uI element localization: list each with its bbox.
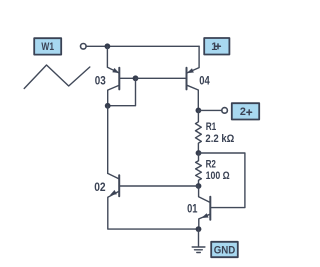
svg-text:W1: W1 [41, 41, 54, 53]
svg-text:2: 2 [240, 106, 246, 118]
node R1-R2 junction (dot) [196, 150, 202, 156]
ground symbol [192, 247, 205, 253]
transistor Q4 (PNP) [187, 46, 200, 110]
terminal label 2+ [232, 103, 259, 119]
wire base bus Q3-Q4 [136, 77, 187, 79]
svg-text:100 Ω: 100 Ω [206, 170, 230, 182]
node R2 bottom (junction dot) [196, 183, 202, 189]
svg-text:2.2 kΩ: 2.2 kΩ [205, 133, 234, 145]
transistor Q1 (NPN) [199, 186, 211, 229]
wire ground lead [198, 229, 200, 246]
svg-text:04: 04 [199, 74, 210, 88]
node top rail (junction dot) [105, 43, 111, 49]
svg-text:02: 02 [94, 180, 106, 194]
wire top rail [86, 45, 199, 47]
node ground (junction dot) [196, 226, 202, 232]
transistor Q2 (NPN) [108, 173, 199, 229]
wire to output terminal [198, 109, 221, 111]
resistor R2 [196, 153, 202, 186]
svg-text:01: 01 [187, 202, 198, 216]
terminal label 1+ [204, 38, 229, 55]
wire left rail [107, 106, 109, 174]
transistor Q3 (PNP, diode-connected) [107, 46, 135, 106]
terminal label W1 [34, 38, 61, 54]
node Q3 collector (junction dot) [105, 103, 111, 109]
terminal label GND [211, 242, 238, 257]
output terminal 2+ (open circle) [222, 108, 228, 114]
resistor R1 [196, 110, 202, 153]
node base bus (junction dot) [133, 75, 139, 81]
input terminal W1 (open circle) [81, 44, 87, 50]
svg-text:03: 03 [95, 74, 106, 88]
svg-text:GND: GND [214, 244, 236, 256]
node output (junction dot) [196, 108, 202, 114]
svg-text:R1: R1 [206, 121, 217, 133]
wire right rail to Q1 base [199, 153, 245, 208]
triangle-wave symbol [24, 65, 90, 89]
wire base-collector tie of Q3 [108, 78, 136, 105]
svg-text:R2: R2 [206, 159, 216, 171]
